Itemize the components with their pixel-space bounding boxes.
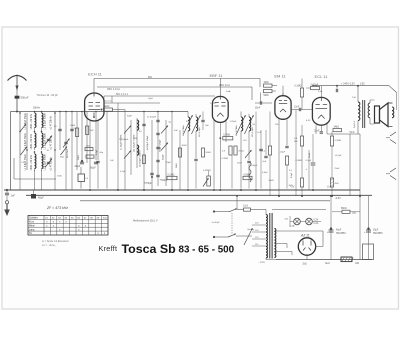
resistor R9 60k <box>234 146 244 155</box>
capacitor C14 <box>194 159 197 188</box>
label bottom <box>258 262 360 265</box>
capacitor C15b <box>259 149 267 163</box>
wires oscillator verticals <box>104 96 180 190</box>
svg-text:8µH: 8µH <box>149 98 153 100</box>
svg-text:14-540pF: 14-540pF <box>119 139 129 141</box>
svg-text:25nF: 25nF <box>237 163 243 165</box>
electrolytic C24 30uF <box>364 196 383 260</box>
capacitor C20 01uF <box>306 134 316 189</box>
capacitor C18 12nF <box>291 106 312 111</box>
svg-text:Mittel: Mittel <box>29 224 35 227</box>
tube U1 internals <box>89 93 101 118</box>
svg-text:60µF: 60µF <box>90 167 96 170</box>
svg-text:12nF: 12nF <box>294 106 300 108</box>
svg-text:7700pF: 7700pF <box>144 183 152 185</box>
switch S2d <box>161 143 168 151</box>
wire bottom rail <box>276 259 372 261</box>
resistor R14 07M <box>295 86 304 98</box>
svg-text:1500 + 90 kHz: 1500 + 90 kHz <box>30 113 33 129</box>
svg-text:L10 30µH 520kHz: L10 30µH 520kHz <box>140 150 142 167</box>
speaker LS <box>375 103 394 127</box>
resistor R3 <box>142 155 145 164</box>
resistor R16 14k <box>333 127 342 132</box>
svg-text:.25µF: .25µF <box>280 152 286 154</box>
svg-text:0,2A: 0,2A <box>290 225 295 228</box>
svg-text:40µF: 40µF <box>38 197 44 200</box>
svg-text:50pF: 50pF <box>127 116 133 118</box>
tube U4 internals <box>316 98 328 119</box>
capacitor C6 40uF <box>75 160 85 168</box>
trimmer C2 <box>45 136 52 145</box>
svg-text:1,25V: 1,25V <box>210 103 216 105</box>
resistor R22 860 <box>332 208 360 215</box>
svg-text:EBF 11: EBF 11 <box>209 73 223 78</box>
svg-text:+ 245V 0,5V: + 245V 0,5V <box>341 83 355 86</box>
svg-text:25kHz: 25kHz <box>33 107 41 110</box>
svg-text:2nF: 2nF <box>110 160 114 162</box>
capacitor C5b <box>70 128 76 131</box>
svg-text:2kΩ 25nF: 2kΩ 25nF <box>67 148 69 158</box>
wire left rail <box>10 112 12 191</box>
capacitor C16 25nF <box>255 101 262 109</box>
IF transformer IFT2 <box>236 112 254 189</box>
svg-text:L2 8,2µH 90cm: L2 8,2µH 90cm <box>44 154 47 170</box>
svg-text:5nF: 5nF <box>263 161 267 163</box>
svg-text:~ 220V: ~ 220V <box>258 262 266 264</box>
tube U4 ECL11 <box>312 97 330 125</box>
flexible lead under IFT2 <box>245 150 252 182</box>
svg-text:s1 47 25kHz: s1 47 25kHz <box>50 115 53 129</box>
svg-text:s1 47 25kHz: s1 47 25kHz <box>50 135 53 149</box>
svg-text:25V: 25V <box>275 124 279 126</box>
svg-text:Tosca Sb: Tosca Sb <box>122 242 177 256</box>
svg-text:1x 40µF: 1x 40µF <box>212 222 221 224</box>
wire U1 plate up <box>93 79 95 94</box>
wire U1 leads <box>90 112 107 189</box>
svg-text:30kΩ: 30kΩ <box>70 125 76 127</box>
svg-text:30kΩ: 30kΩ <box>182 145 188 147</box>
lamp LP2 <box>306 218 313 225</box>
svg-text:.22nF: .22nF <box>314 131 320 133</box>
svg-text:0,1µF: 0,1µF <box>306 160 312 162</box>
voltage selector taps <box>244 223 266 247</box>
capacitor C11 <box>139 124 146 133</box>
svg-text:14kΩ: 14kΩ <box>334 127 340 129</box>
svg-text:40µF: 40µF <box>336 230 342 232</box>
resistor R10 1M <box>264 82 273 87</box>
svg-text:0,1MΩ: 0,1MΩ <box>168 174 175 176</box>
svg-text:ZF = 473 kHz: ZF = 473 kHz <box>46 206 68 210</box>
resistor R21 field <box>341 257 353 262</box>
svg-text:0,1MΩ: 0,1MΩ <box>222 158 229 160</box>
resistor R15 53k <box>311 85 320 90</box>
wire HT loop <box>274 231 323 255</box>
wire tone line <box>327 131 360 134</box>
wire osc line <box>104 93 215 96</box>
capacitor C22 40uF <box>31 190 44 200</box>
svg-text:30kΩ: 30kΩ <box>78 155 80 160</box>
svg-text:Tonbl.: Tonbl. <box>309 152 311 158</box>
switch S1a <box>21 147 28 156</box>
svg-text:40µF: 40µF <box>75 165 81 168</box>
trimmer C3 <box>45 159 52 168</box>
svg-text:860Ω: 860Ω <box>341 208 347 210</box>
svg-text:7pF: 7pF <box>205 125 209 127</box>
resistor R6 <box>201 148 211 157</box>
svg-text:350/385V: 350/385V <box>373 233 383 235</box>
tube U2 internals <box>215 96 226 116</box>
resistor R1 <box>70 125 79 137</box>
wire ECL top <box>302 79 321 110</box>
switch S1b <box>61 147 68 156</box>
switch coupling dashed <box>231 213 233 234</box>
svg-text:2kΩ: 2kΩ <box>303 264 307 266</box>
resistor R12 <box>285 156 288 165</box>
wire antenna drop <box>16 99 18 112</box>
coil L osc <box>121 120 139 152</box>
terminal pickup 2 <box>386 168 396 180</box>
resistor R11 PAD <box>264 90 273 98</box>
capacitor C12 7700pF <box>144 173 154 185</box>
wire EM area <box>255 86 277 104</box>
svg-text:110pF: 110pF <box>163 154 165 160</box>
svg-text:0,5MΩ: 0,5MΩ <box>244 174 251 176</box>
svg-text:4kΩ: 4kΩ <box>335 183 339 185</box>
switch S2c <box>161 126 168 134</box>
wire U4 leads <box>316 122 327 134</box>
ground symbol <box>4 201 10 216</box>
capacitor C5 <box>63 139 70 148</box>
svg-text:4kΩ: 4kΩ <box>289 185 293 187</box>
svg-text:2nF: 2nF <box>174 130 178 132</box>
svg-text:ECH 11: ECH 11 <box>88 72 102 77</box>
svg-text:AZ 11: AZ 11 <box>300 234 310 238</box>
svg-text:6,3V: 6,3V <box>314 220 319 222</box>
wire mains bus <box>237 209 326 211</box>
lamp LP1 <box>294 218 301 225</box>
svg-text:5mA: 5mA <box>350 131 355 134</box>
coil block input bandfilter <box>14 112 56 180</box>
svg-text:1kΩ2: 1kΩ2 <box>104 106 110 108</box>
svg-text:3x 520pF: 3x 520pF <box>147 117 157 119</box>
svg-text:Krefft: Krefft <box>99 244 118 253</box>
svg-text:U a: U a <box>327 186 331 189</box>
switch S mains pole2 <box>213 234 252 239</box>
svg-text:50kΩ: 50kΩ <box>269 180 275 182</box>
wire HT line <box>312 84 397 93</box>
svg-text:L14 473kHz: L14 473kHz <box>236 125 238 136</box>
tube U2 EBF11 <box>212 96 228 122</box>
resistor R2 1k <box>101 106 126 120</box>
rectifier U5 AZ11 <box>298 238 315 255</box>
electrolytic C23 40uF <box>327 196 346 260</box>
resistor R17 03M <box>294 136 304 146</box>
svg-text:TA: TA <box>29 232 32 235</box>
svg-text:280L 2mA: 280L 2mA <box>219 84 230 87</box>
svg-text:280L 2,4mA: 280L 2,4mA <box>107 88 120 91</box>
wire U4 verticals <box>302 125 332 196</box>
switch S2a <box>124 126 131 134</box>
svg-text:30µF: 30µF <box>373 230 379 232</box>
capacitor C21 1nF <box>5 189 15 201</box>
svg-text:1,25µF: 1,25µF <box>230 121 238 123</box>
wire AVC drop <box>259 79 261 88</box>
resistor R23 05M <box>243 174 252 179</box>
svg-text:0,1A: 0,1A <box>243 205 248 208</box>
svg-text:0,55: 0,55 <box>360 84 365 86</box>
label lamps <box>285 219 319 228</box>
wire U2 leads <box>214 119 226 189</box>
capacitor C-ant 500pF <box>15 89 29 100</box>
svg-text:50kΩ: 50kΩ <box>206 152 212 154</box>
potentiometer P1 volume <box>203 171 210 187</box>
svg-text:25nF: 25nF <box>335 168 341 170</box>
svg-text:60kΩ: 60kΩ <box>239 151 245 153</box>
switch S2b <box>124 151 131 159</box>
svg-text:1nF: 1nF <box>11 195 16 198</box>
switch S1c <box>21 124 27 131</box>
wire ground bus 1 <box>4 189 360 191</box>
wires left verticals <box>20 112 96 191</box>
svg-text:L2 8,2µH 90cm: L2 8,2µH 90cm <box>44 113 47 129</box>
svg-text:83 - 65 - 500: 83 - 65 - 500 <box>179 244 235 255</box>
wire AVC line top <box>94 78 260 80</box>
resistor R13 bias <box>262 130 272 196</box>
fuse F1 01A <box>243 205 251 212</box>
svg-text:30kΩ: 30kΩ <box>176 163 178 168</box>
svg-text:350/385V: 350/385V <box>336 233 346 235</box>
svg-text:1500 + 90 kHz: 1500 + 90 kHz <box>30 133 33 149</box>
svg-text:0,2MΩ: 0,2MΩ <box>223 135 230 137</box>
svg-text:25nF: 25nF <box>255 108 261 110</box>
svg-text:0,3MΩ: 0,3MΩ <box>296 160 303 162</box>
svg-text:0,5µ: 0,5µ <box>318 91 323 93</box>
wire rectifier leads <box>307 242 323 260</box>
label 280uA <box>107 84 230 91</box>
svg-text:1500 + 90 kHz: 1500 + 90 kHz <box>30 154 33 170</box>
wire input bus <box>11 111 189 113</box>
svg-text:Kurz: Kurz <box>29 221 35 224</box>
svg-text:0,5µF: 0,5µF <box>291 172 293 178</box>
wire U3 leads <box>279 86 287 196</box>
electrolytic C8 <box>78 167 89 189</box>
svg-text:Lang: Lang <box>29 228 35 231</box>
capacitor U1 cath <box>96 161 99 188</box>
svg-text:3x520pF 110pF: 3x520pF 110pF <box>147 135 149 150</box>
terminal pickup 1 <box>386 132 396 144</box>
svg-text:EM 11: EM 11 <box>274 74 286 79</box>
svg-text:L2 8,2µH 90cm: L2 8,2µH 90cm <box>44 133 47 149</box>
resistor R5 <box>178 148 181 157</box>
resistor R24 <box>85 146 93 151</box>
capacitor C10 stack <box>147 120 162 161</box>
svg-text:L13 3,3µH: L13 3,3µH <box>199 127 201 137</box>
resistor R25 <box>86 155 94 158</box>
svg-text:1MΩ: 1MΩ <box>264 82 269 84</box>
svg-text:-0,5V: -0,5V <box>335 197 341 200</box>
wire bottom drop <box>266 259 276 261</box>
resistor R1b <box>86 126 94 135</box>
antenna <box>8 75 27 90</box>
resistor R4 01M <box>167 174 177 179</box>
transformer OT output <box>352 85 370 134</box>
resistor R8 03M <box>222 146 232 155</box>
svg-text:5MΩ: 5MΩ <box>264 95 269 97</box>
svg-text:520pF 520pF: 520pF 520pF <box>160 139 162 152</box>
capacitor C17 <box>280 146 289 153</box>
svg-text:0,3A: 0,3A <box>314 222 319 225</box>
wire AVC line 2 <box>97 87 252 100</box>
svg-text:35Ω: 35Ω <box>352 213 357 215</box>
resistor R7 02M <box>219 135 232 140</box>
wire mid verticals <box>232 112 266 189</box>
svg-text:1500: 1500 <box>57 176 63 178</box>
svg-text:Lu 15µH 900kHz: Lu 15µH 900kHz <box>121 134 123 150</box>
svg-text:0,25MΩ: 0,25MΩ <box>203 170 211 172</box>
wire lamp circuit <box>290 216 321 227</box>
svg-text:Tn8 5,2: Tn8 5,2 <box>354 120 356 128</box>
svg-text:L15 3,3µH: L15 3,3µH <box>252 127 254 137</box>
transformer T-mains <box>266 210 276 260</box>
svg-text:0,1µF: 0,1µF <box>96 149 98 155</box>
table footnote <box>42 240 70 247</box>
capacitor C15 <box>247 161 258 188</box>
can 30uF outline <box>363 244 374 260</box>
svg-text:500 pF: 500 pF <box>21 96 29 100</box>
coil L osc2 <box>137 145 142 167</box>
svg-text:881 1,2-4,1: 881 1,2-4,1 <box>116 93 129 96</box>
tube U1 ECH11 <box>85 93 104 121</box>
capacitor C7 60uF <box>90 162 98 169</box>
table switch positions <box>28 216 108 236</box>
resistor R20 4k <box>330 178 338 187</box>
tube U3 internals <box>279 93 287 112</box>
wire ground bus 2 <box>26 194 372 196</box>
wire osc line2 <box>104 102 160 104</box>
svg-text:8µ1 2,4: 8µ1 2,4 <box>104 101 112 103</box>
svg-text:100pF: 100pF <box>251 165 258 167</box>
svg-text:L1 0,9µH 75cm: L1 0,9µH 75cm <box>24 154 27 170</box>
bus junction dots <box>16 111 361 198</box>
svg-text:Trimmer 10 - 60 pF: Trimmer 10 - 60 pF <box>37 94 59 97</box>
switch S mains pole1 <box>213 208 237 212</box>
svg-text:Lo = „ ohne „: Lo = „ ohne „ <box>42 244 56 247</box>
resistor R19 <box>300 178 303 187</box>
svg-text:Meßinstrument 2Ω/,1 V: Meßinstrument 2Ω/,1 V <box>133 220 158 223</box>
svg-text:0,1µF: 0,1µF <box>120 171 126 173</box>
svg-text:Li = Spule mit Eisenkern: Li = Spule mit Eisenkern <box>42 240 70 243</box>
wire right drop <box>396 93 398 111</box>
svg-text:ECL 11: ECL 11 <box>315 74 329 79</box>
component value labels <box>22 90 357 187</box>
svg-text:5kΩ: 5kΩ <box>60 157 64 159</box>
svg-text:L1 0,9µH 75cm: L1 0,9µH 75cm <box>24 113 27 129</box>
svg-text:0,1MΩ: 0,1MΩ <box>295 86 302 88</box>
wires misc verticals <box>270 110 309 197</box>
svg-text:0,1MΩ: 0,1MΩ <box>335 140 342 142</box>
wire right power verticals <box>236 134 360 260</box>
IF transformer IFT1 <box>183 112 205 189</box>
wire speaker leads <box>370 100 375 124</box>
svg-text:7700pF: 7700pF <box>160 180 168 182</box>
svg-text:20pF: 20pF <box>166 162 172 164</box>
svg-text:+0,5µF: +0,5µF <box>335 155 343 157</box>
svg-text:0,5µF: 0,5µF <box>262 172 268 174</box>
wire U2 plate <box>219 79 221 97</box>
resistor R18 <box>330 136 341 146</box>
svg-text:Schalter: Schalter <box>29 217 38 220</box>
svg-text:B61: B61 <box>148 76 153 79</box>
tube U3 EM11 <box>275 96 291 120</box>
svg-text:2mA: 2mA <box>226 90 231 93</box>
svg-text:2x50µF: 2x50µF <box>311 85 319 87</box>
capacitor C4 <box>54 126 62 131</box>
capacitor C19 22nF <box>314 131 324 134</box>
capacitor C13 <box>156 175 168 182</box>
wire ground bus 3 <box>80 200 330 202</box>
svg-text:L12 473kHz: L12 473kHz <box>183 125 185 136</box>
svg-text:4,4V: 4,4V <box>306 120 311 122</box>
wire U3 bottom <box>286 165 288 189</box>
